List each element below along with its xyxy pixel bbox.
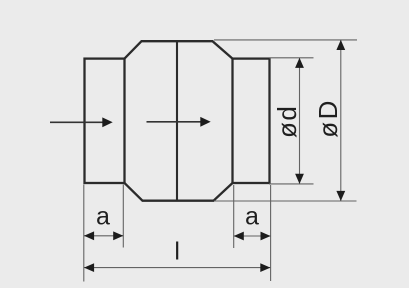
- right spigot outline: [233, 59, 270, 183]
- dimension a right: [234, 232, 271, 241]
- dimension line od: [295, 58, 304, 184]
- extension line oD bottom: [214, 200, 357, 202]
- body centre seam line: [176, 41, 178, 201]
- svg-text:a: a: [96, 202, 110, 230]
- extension line right inner: [233, 185, 235, 248]
- flow arrow right: [147, 117, 211, 127]
- extension line right outer: [270, 185, 272, 281]
- dimension a left: [84, 231, 123, 240]
- body outline with chamfers: [125, 41, 233, 201]
- dimension l overall: [84, 263, 270, 272]
- extension line oD top: [214, 39, 357, 41]
- extension line left inner: [122, 185, 124, 248]
- svg-text:l: l: [174, 238, 180, 266]
- dimension line oD: [336, 40, 345, 201]
- left spigot outline: [85, 59, 125, 183]
- extension line od bottom: [269, 183, 314, 185]
- svg-text:øD: øD: [313, 98, 343, 138]
- svg-text:ød: ød: [272, 105, 302, 138]
- extension line left outer: [83, 185, 85, 282]
- extension line od top: [269, 57, 314, 59]
- svg-text:a: a: [245, 202, 259, 230]
- flow arrow left: [50, 117, 113, 127]
